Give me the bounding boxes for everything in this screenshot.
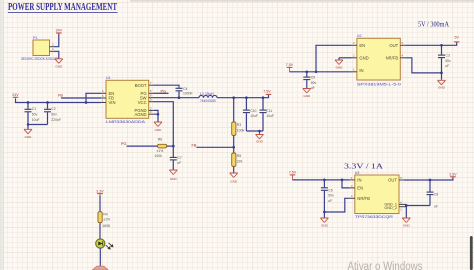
ground (C3/NR): [438, 80, 446, 89]
node R3 tap: [232, 96, 235, 99]
svg-text:±1%: ±1%: [157, 149, 164, 153]
wire BOOT to C4: [154, 85, 180, 88]
svg-text:NR/FB: NR/FB: [386, 55, 399, 60]
wire P1 pin2 to 24V: [54, 34, 59, 47]
ground (VCC cap): [169, 170, 177, 181]
svg-text:50v: 50v: [51, 112, 57, 116]
wire to gnd (C3): [441, 73, 443, 80]
svg-text:24V: 24V: [12, 93, 19, 97]
ground (U2 GND pin): [335, 58, 343, 70]
resistor R6: [155, 138, 174, 158]
U1 pin EN: [101, 89, 106, 93]
wire U3 gnd pins join: [405, 204, 407, 217]
scrollbar thumb: [470, 236, 473, 270]
svg-text:U1: U1: [106, 76, 111, 80]
node U3 EN tie: [341, 179, 344, 182]
svg-text:GND: GND: [321, 223, 329, 227]
op-amp U2 LDO 5V: [357, 34, 401, 86]
svg-text:FB: FB: [192, 143, 197, 147]
power flag 7.5V (U3 in): [289, 171, 297, 180]
wire P1 pin1 to GND: [54, 51, 59, 58]
ground bar (bottom, clipped): [92, 266, 108, 270]
capacitor C7: [170, 146, 182, 170]
wire VIN rail: [16, 99, 102, 103]
svg-text:IN: IN: [359, 68, 363, 73]
wire U2 input rail: [290, 71, 352, 73]
ground (input caps): [24, 129, 32, 139]
svg-text:VCC: VCC: [138, 100, 147, 105]
svg-text:OUT: OUT: [388, 178, 397, 183]
inductor L1: [199, 92, 217, 103]
U1 pin SW: [149, 94, 154, 98]
P1 pin 2: [50, 43, 55, 47]
U3 pin GND_1: [399, 200, 406, 204]
resistor R3: [232, 98, 245, 148]
U3 pin GND_2: [399, 207, 406, 212]
op-amp U3 LDO 3.3V: [355, 171, 399, 219]
capacitor C3: [438, 45, 451, 73]
power flag 7.5V (U2 in): [286, 63, 294, 72]
wire gnd to cap bottom: [406, 205, 430, 207]
node output caps gnd: [258, 130, 261, 133]
svg-text:NR/FB: NR/FB: [357, 196, 370, 201]
wire R4 to LED: [99, 223, 101, 239]
U1 pin VCC: [149, 98, 154, 102]
connector P1: [21, 36, 58, 61]
svg-text:50v: 50v: [311, 81, 317, 85]
svg-text:±1%: ±1%: [103, 218, 110, 222]
svg-text:50v: 50v: [445, 59, 451, 63]
ground (U3 gnd pins): [402, 218, 410, 227]
svg-text:C5: C5: [311, 76, 315, 80]
svg-text:OUT: OUT: [389, 43, 398, 48]
svg-text:GND: GND: [170, 177, 178, 181]
capacitor C1: [25, 103, 40, 125]
left window edge strip: [0, 0, 3, 270]
svg-text:C6: C6: [328, 188, 332, 192]
svg-text:GND: GND: [230, 179, 238, 183]
svg-text:10uF: 10uF: [32, 118, 40, 122]
svg-text:R4: R4: [103, 212, 107, 216]
svg-text:22k: 22k: [237, 159, 243, 163]
svg-text:uF: uF: [311, 86, 315, 90]
power flag 7.5V (buck out): [263, 90, 271, 95]
svg-text:PG: PG: [121, 142, 127, 146]
capacitor C4: [176, 87, 193, 98]
wire U3 OUT to 3.3V: [404, 177, 453, 180]
wire to gnd (output caps): [259, 131, 261, 134]
svg-text:220nF: 220nF: [51, 118, 61, 122]
U3 pin IN: [350, 176, 355, 180]
capacitor C11: [260, 98, 275, 131]
ground (output caps): [256, 135, 264, 144]
resistor R4: [98, 212, 110, 228]
svg-text:U3: U3: [355, 171, 360, 175]
svg-text:FB: FB: [58, 93, 63, 97]
svg-text:50v: 50v: [328, 194, 334, 198]
svg-text:1608: 1608: [102, 224, 110, 228]
U2 pin NR/FB: [400, 54, 405, 58]
U2 pin GND: [352, 54, 357, 58]
svg-text:U2: U2: [357, 34, 362, 38]
svg-text:VIN: VIN: [109, 100, 116, 105]
svg-text:3.3V: 3.3V: [449, 172, 457, 176]
wire FB to U1: [61, 97, 101, 99]
svg-text:C1: C1: [32, 107, 36, 111]
title: POWER SUPPLY MANAGEMENT: [8, 2, 118, 13]
svg-text:2EDGRC-2EDGK-5.08-02P: 2EDGRC-2EDGK-5.08-02P: [21, 57, 58, 61]
node BOOT cap / SW: [178, 96, 181, 99]
svg-text:C4: C4: [183, 87, 187, 91]
svg-text:3.3V / 1A: 3.3V / 1A: [344, 162, 383, 170]
svg-text:R6: R6: [158, 138, 162, 142]
svg-text:100k: 100k: [155, 154, 163, 158]
wire 3.3V to R4: [99, 196, 101, 212]
svg-text:LMR33630ADDA: LMR33630ADDA: [106, 120, 146, 124]
top window edge strip: [130, 0, 474, 2]
svg-text:7.5V: 7.5V: [263, 90, 271, 94]
wire U2 OUT to 5V: [405, 42, 456, 45]
power flag 3.3V (U3 out): [449, 172, 457, 176]
svg-text:7.5V: 7.5V: [289, 171, 297, 175]
U1 pin VIN: [101, 98, 106, 102]
svg-text:GND: GND: [303, 94, 311, 98]
capacitor C5: [303, 72, 316, 90]
node C11 tap: [262, 96, 265, 99]
svg-text:GND: GND: [403, 223, 411, 227]
wire U3 NR to C6 bottom: [324, 198, 349, 212]
wire SW to inductor: [154, 97, 200, 99]
svg-text:EN: EN: [359, 43, 365, 48]
svg-text:GND: GND: [155, 128, 163, 132]
svg-text:GND: GND: [359, 55, 368, 60]
U1 pin PGND: [149, 106, 154, 110]
node C6 tap: [323, 179, 326, 182]
node NR/C3 gnd: [440, 72, 443, 75]
wire PG stub: [154, 92, 169, 94]
svg-text:POWER SUPPLY MANAGEMENT: POWER SUPPLY MANAGEMENT: [8, 2, 117, 13]
node C1 tap: [27, 101, 30, 104]
svg-text:uF: uF: [434, 205, 438, 209]
svg-text:C10: C10: [250, 109, 256, 113]
U3 pin OUT: [399, 176, 404, 180]
wire VCC down: [154, 102, 174, 146]
LED D1: [96, 239, 113, 249]
svg-text:GND: GND: [25, 135, 33, 139]
svg-text:GND: GND: [336, 66, 344, 70]
wire to gnd (C6): [323, 212, 325, 218]
svg-text:24V: 24V: [56, 29, 63, 33]
svg-text:100k: 100k: [237, 128, 245, 132]
svg-text:BOOT: BOOT: [135, 83, 147, 88]
svg-text:C3: C3: [445, 54, 449, 58]
node C6 bottom: [323, 211, 326, 214]
resistor R5: [232, 147, 243, 172]
wire FB to divider: [197, 146, 234, 148]
node FB divider: [232, 146, 235, 149]
wire U3 input rail: [293, 179, 350, 181]
wire U2 GND pin: [339, 57, 352, 59]
power flag 3.3V (LED): [96, 189, 104, 195]
node C5 tap: [305, 70, 308, 73]
U2 pin EN: [352, 41, 357, 45]
svg-text:SPX3819M5-L-5-0: SPX3819M5-L-5-0: [357, 82, 401, 86]
wire PG to R6: [127, 145, 158, 147]
svg-text:uF: uF: [177, 161, 181, 165]
U1 pin BOOT: [149, 81, 154, 85]
svg-text:3.3V: 3.3V: [96, 189, 104, 193]
node C3 tap: [440, 44, 443, 47]
svg-text:GND: GND: [256, 140, 264, 144]
wire C1 to gnd: [27, 125, 29, 130]
U2 pin IN: [352, 68, 357, 72]
node C2 tap: [46, 101, 49, 104]
U3 pin NR/FB: [350, 194, 355, 198]
svg-text:GND: GND: [438, 86, 446, 90]
ground (C5): [303, 89, 311, 98]
node C1 bottom: [27, 123, 30, 126]
wire U3 EN tie: [342, 180, 350, 188]
svg-text:C8: C8: [434, 193, 438, 197]
svg-text:Ativar o Windows: Ativar o Windows: [348, 261, 423, 270]
svg-text:AGND: AGND: [134, 112, 146, 117]
node VCC / R6: [172, 145, 175, 148]
U3 pin EN: [350, 184, 355, 188]
svg-text:R5: R5: [237, 154, 241, 158]
wire U2 EN tie: [316, 45, 352, 72]
capacitor C8: [427, 180, 439, 209]
U1 pin AGND: [149, 110, 154, 114]
wire output rail: [217, 95, 269, 98]
svg-text:L1 15uH: L1 15uH: [200, 92, 214, 96]
node U2 EN tie: [315, 70, 318, 73]
op-amp U1 buck regulator: [106, 76, 149, 124]
U1 pin FB: [101, 94, 106, 98]
svg-text:50v: 50v: [32, 112, 38, 116]
node U3 gnd: [405, 204, 408, 207]
ground (C6/NR): [320, 218, 328, 227]
wire output cap bottoms: [246, 130, 263, 132]
wire U2 NR to gnd node: [405, 58, 441, 73]
svg-text:100nF: 100nF: [183, 92, 193, 96]
svg-text:C11: C11: [266, 109, 272, 113]
wire LED to ground bar: [99, 248, 101, 266]
node C10 tap: [245, 96, 248, 99]
node AGND: [157, 113, 160, 116]
svg-text:C7: C7: [177, 156, 181, 160]
ground (connector): [55, 59, 63, 69]
wire EN tie: [86, 93, 101, 102]
svg-text:GND_2: GND_2: [384, 206, 397, 210]
svg-text:uF: uF: [445, 64, 449, 68]
svg-text:TPS73633DCQR: TPS73633DCQR: [355, 215, 393, 219]
node EN tie: [85, 101, 88, 104]
svg-text:7.5V: 7.5V: [286, 63, 294, 67]
svg-text:744043150: 744043150: [200, 99, 216, 103]
svg-text:5V / 300mA: 5V / 300mA: [418, 20, 449, 28]
capacitor C2: [44, 103, 61, 125]
svg-text:10uF: 10uF: [250, 114, 258, 118]
svg-text:5V: 5V: [454, 35, 459, 39]
power flag 24V (input rail): [12, 93, 19, 99]
svg-text:P1: P1: [33, 36, 37, 40]
capacitor C6: [321, 180, 334, 212]
svg-text:EN: EN: [357, 186, 363, 191]
wire cap bottoms: [28, 124, 48, 126]
wire PGND/AGND join: [154, 110, 158, 114]
P1 pin 1: [50, 47, 55, 51]
U2 pin OUT: [400, 41, 405, 45]
ground (U1 AGND): [154, 122, 162, 132]
svg-text:IN: IN: [357, 178, 361, 183]
svg-text:C2: C2: [51, 107, 55, 111]
svg-text:R3: R3: [237, 123, 241, 127]
svg-text:GND: GND: [55, 64, 63, 68]
U1 pin PG: [149, 89, 154, 93]
ground (divider): [230, 173, 238, 183]
svg-text:10uF: 10uF: [266, 114, 274, 118]
node C8 tap: [429, 179, 432, 182]
power flag 24V (connector): [56, 29, 63, 35]
capacitor C10: [243, 98, 258, 131]
svg-text:uF: uF: [328, 199, 332, 203]
power flag 5V: [454, 35, 460, 42]
